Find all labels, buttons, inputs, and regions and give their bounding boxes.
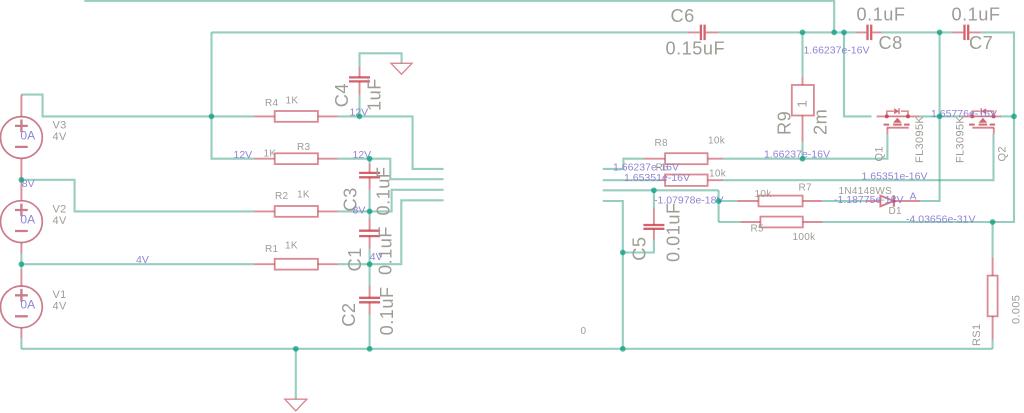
wire stub2 (370, 159, 444, 180)
svg-text:0.15uF: 0.15uF (666, 39, 726, 59)
svg-text:V2: V2 (53, 204, 67, 216)
wire RS1 bottom (992, 340, 994, 349)
wire right stub row3 to R7 feed (603, 189, 719, 191)
transistor Q2 (961, 115, 1000, 117)
svg-text:1.65351e-16V: 1.65351e-16V (624, 172, 690, 184)
svg-text:V1: V1 (53, 289, 67, 301)
ground bottom (285, 399, 307, 411)
capacitor C7 (953, 31, 981, 33)
resistor R3 (255, 158, 338, 160)
wire 4V row (21, 263, 254, 265)
capacitor C2 (369, 286, 371, 315)
svg-text:0.1uF: 0.1uF (374, 166, 394, 215)
svg-text:R8: R8 (655, 138, 669, 149)
wire C2 bottom (369, 315, 371, 349)
svg-text:1: 1 (795, 100, 810, 107)
svg-text:R4: R4 (265, 98, 279, 109)
wire Q2 right to edge (1000, 115, 1014, 117)
junction x622 rail (620, 346, 626, 352)
diode D1 (866, 200, 920, 202)
svg-text:1.66237e-16V: 1.66237e-16V (764, 149, 830, 161)
wire V3 plus step (21, 95, 254, 117)
svg-text:R1: R1 (265, 244, 279, 255)
wire D1 cathode up to channel (920, 116, 939, 201)
svg-text:4V: 4V (370, 251, 383, 263)
svg-text:1K: 1K (286, 95, 299, 106)
svg-text:D1: D1 (889, 206, 903, 217)
resistor R4 (255, 115, 338, 117)
wire C3 top (369, 159, 371, 164)
wire C3 bottom (369, 190, 371, 211)
svg-text:V3: V3 (53, 120, 67, 132)
wire right stub row4 down to rail (603, 201, 623, 349)
wire R2 right (338, 210, 370, 212)
wire 8V step to R2 (21, 180, 254, 212)
svg-text:Q1: Q1 (874, 146, 886, 161)
capacitor C8 (857, 31, 882, 33)
wire R5 right to RS1 node (822, 221, 992, 223)
svg-text:1K: 1K (297, 189, 310, 200)
svg-text:0.005: 0.005 (1011, 295, 1023, 324)
wire R9 bottom to gate net (801, 142, 803, 159)
wire C1 top (369, 211, 371, 218)
wire C4 bottom (358, 95, 360, 116)
wire C5 bottom loop (623, 240, 654, 253)
wire C2 top (369, 264, 371, 286)
wire second rail left segment (212, 31, 688, 33)
wire R7 left lead (719, 200, 738, 202)
svg-text:A: A (910, 190, 917, 202)
svg-text:C1: C1 (345, 247, 365, 271)
resistor R5 (741, 221, 823, 223)
junction R9 bottom (800, 156, 806, 162)
junction top rail drop (831, 30, 837, 36)
capacitor C1 (369, 218, 371, 249)
resistor R8 (644, 158, 723, 160)
wire C7 left branch (939, 32, 941, 116)
wire C4 top to ground (360, 53, 402, 67)
resistor R6 (659, 179, 723, 181)
wire rail right corner to RS1 node (981, 32, 1015, 222)
svg-text:C5: C5 (630, 236, 650, 260)
svg-text:R9: R9 (775, 111, 795, 135)
svg-text:R5: R5 (751, 224, 765, 235)
svg-text:4V: 4V (136, 254, 149, 266)
svg-text:-1.07978e-18V: -1.07978e-18V (654, 194, 723, 206)
junction R7-R5 feed (716, 198, 722, 204)
svg-text:FL3095K: FL3095K (955, 116, 967, 163)
junction C2 rail (367, 346, 373, 352)
junction C5 top (651, 187, 657, 193)
svg-text:12V: 12V (234, 149, 253, 161)
junction C4 12V (357, 114, 363, 120)
wire R6 right to Q2 gate (723, 134, 994, 180)
svg-text:10k: 10k (709, 169, 727, 180)
junction C7 branch rail (937, 30, 943, 36)
svg-text:R2: R2 (275, 191, 289, 202)
svg-text:0.1uF: 0.1uF (952, 4, 1001, 24)
svg-text:2m: 2m (811, 109, 831, 135)
svg-text:RS1: RS1 (971, 324, 983, 346)
wire R9 top (801, 32, 803, 77)
svg-text:C2: C2 (339, 302, 359, 326)
wire C8 left branch to Q1 (844, 32, 872, 116)
svg-text:8V: 8V (353, 204, 366, 216)
wire right stub row1 into R8 (603, 159, 644, 169)
svg-text:100k: 100k (793, 232, 817, 243)
wire V1 plus from 4V node (20, 264, 22, 269)
voltage source V3 (1, 117, 43, 159)
svg-text:Q2: Q2 (997, 146, 1009, 161)
voltage source V2 (1, 201, 43, 243)
wire C5 top branch (653, 190, 655, 208)
junction ground rail (293, 346, 299, 352)
junction channel right (1011, 114, 1017, 120)
svg-text:4V: 4V (53, 131, 67, 143)
svg-text:4V: 4V (53, 215, 67, 227)
junction C8 branch (841, 30, 847, 36)
junction V3-V2 8V (19, 177, 25, 183)
capacitor C4 (359, 67, 361, 96)
wire bottom rail (21, 348, 992, 350)
wire RS1 top (992, 222, 994, 258)
svg-text:R3: R3 (297, 142, 311, 153)
svg-text:10k: 10k (708, 136, 726, 147)
wire row3 down feed (718, 190, 720, 222)
svg-text:0.1uF: 0.1uF (377, 286, 397, 335)
svg-text:0.1uF: 0.1uF (857, 4, 906, 24)
svg-text:1.65351e-16V: 1.65351e-16V (862, 171, 928, 183)
svg-text:-4.03656e-31V: -4.03656e-31V (906, 213, 975, 225)
resistor R2 (255, 210, 338, 212)
ground top (391, 63, 412, 74)
wire V2 minus to 4V node (20, 253, 22, 264)
wire R8 right to Q1 gate (723, 134, 887, 159)
junction C3 12V (367, 156, 373, 162)
wire second rail right segment (882, 31, 953, 33)
wire C1 bottom (369, 249, 371, 265)
svg-text:4V: 4V (53, 301, 67, 313)
capacitor C6 (688, 31, 719, 33)
wire R5 left lead (719, 221, 741, 223)
svg-text:0: 0 (581, 326, 587, 337)
svg-text:FL3095K: FL3095K (914, 116, 926, 163)
svg-text:0.01uF: 0.01uF (664, 202, 684, 262)
wire top rail (84, 1, 834, 33)
junction R4 left (209, 114, 215, 120)
junction R9 rail (800, 30, 806, 36)
junction V2-V1 4V (19, 261, 25, 267)
svg-text:0A: 0A (20, 212, 35, 226)
svg-text:C6: C6 (671, 6, 695, 26)
junction C1-C2 4V (367, 261, 373, 267)
transistor Q1 (877, 115, 920, 117)
resistor RS1 (992, 258, 994, 340)
wire right stub row2 into R6 (603, 179, 659, 181)
svg-text:-1.18775e-18V: -1.18775e-18V (834, 194, 903, 206)
voltage source V1 (1, 286, 43, 328)
svg-text:1.66237e-16V: 1.66237e-16V (804, 45, 870, 57)
svg-text:C4: C4 (332, 83, 352, 107)
capacitor C3 (369, 164, 371, 190)
svg-text:0A: 0A (20, 128, 35, 142)
resistor R9 (802, 77, 804, 142)
capacitor C5 (653, 209, 655, 241)
wire V1 bottom corner (20, 339, 22, 349)
svg-text:1K: 1K (285, 240, 298, 251)
wire R4 right to stub1 (338, 116, 444, 168)
svg-text:0A: 0A (20, 298, 35, 312)
svg-text:R7: R7 (799, 183, 813, 194)
junction channel mid (937, 114, 943, 120)
junction RS1 top (990, 219, 996, 225)
wire stub3 (370, 190, 444, 212)
wire vertical at x211 (210, 32, 212, 116)
junction C5 loop (620, 250, 626, 256)
wire Q1-Q2 mid channel (919, 115, 961, 117)
wire ground stem bottom (295, 349, 297, 399)
wire R7 right to D1 (822, 200, 867, 202)
svg-text:C7: C7 (969, 33, 993, 53)
wire second rail mid segment (719, 31, 857, 33)
svg-text:10k: 10k (755, 189, 773, 200)
wire 12V column feed to R3 (212, 116, 255, 158)
resistor R7 (738, 200, 822, 202)
svg-text:C8: C8 (879, 33, 903, 53)
wire R3 right (338, 158, 370, 160)
svg-text:1K: 1K (264, 149, 277, 160)
wire R1 right (338, 263, 370, 265)
junction C3-C1 8V (367, 209, 373, 215)
wire stub4 (370, 200, 444, 264)
resistor R1 (255, 263, 338, 265)
